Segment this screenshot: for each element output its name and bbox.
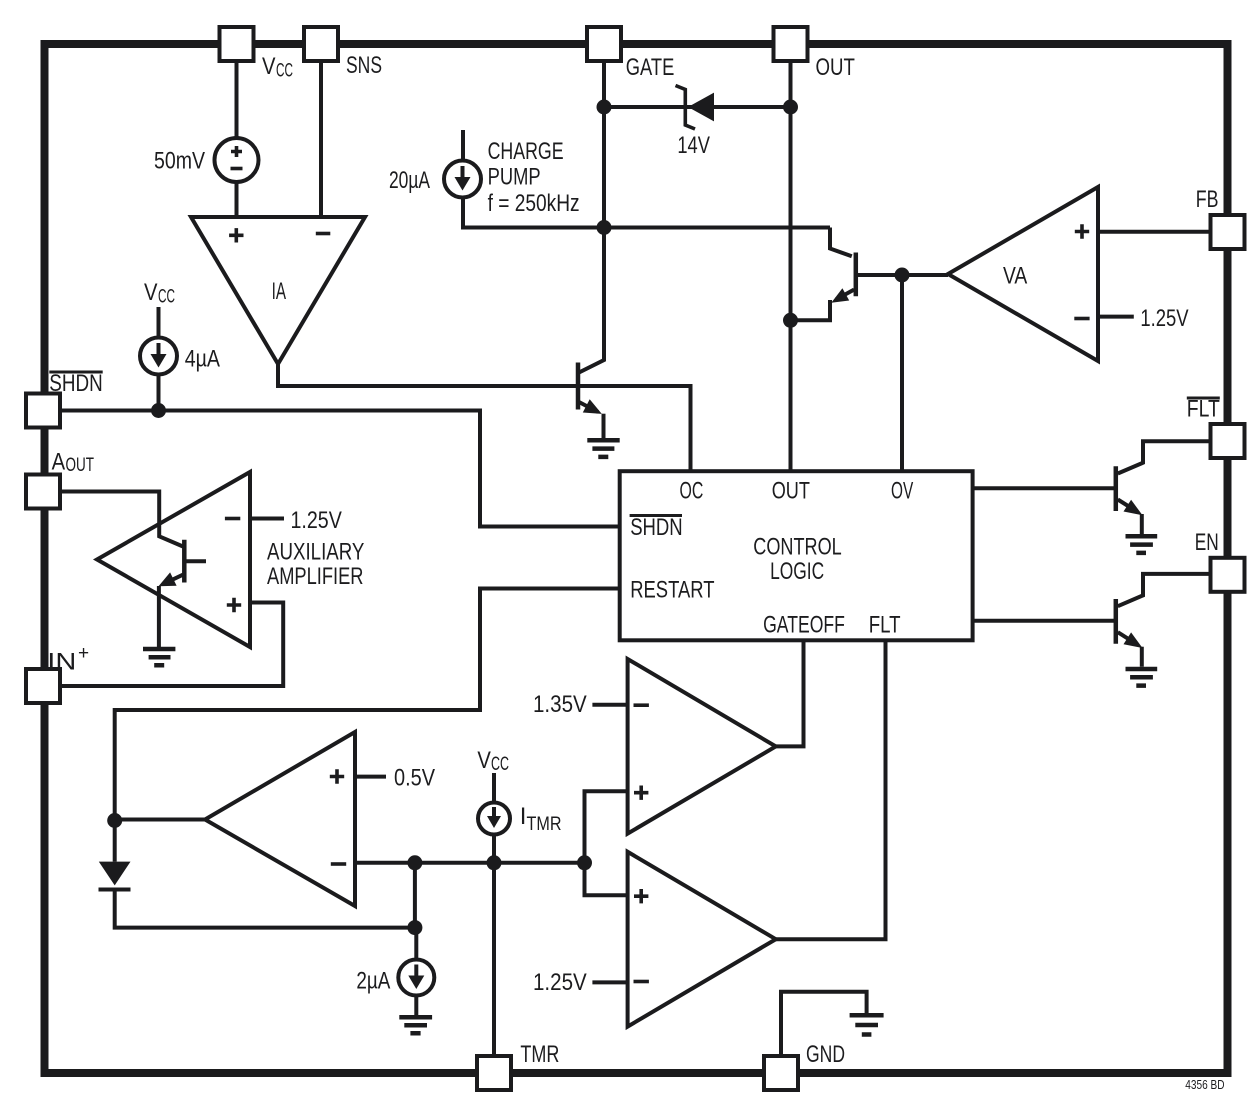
svg-text:1.25V: 1.25V xyxy=(291,507,342,534)
svg-text:V: V xyxy=(144,279,158,306)
svg-text:20µA: 20µA xyxy=(389,167,430,194)
svg-text:AMPLIFIER: AMPLIFIER xyxy=(267,563,364,590)
svg-text:OUT: OUT xyxy=(816,54,856,81)
svg-text:SHDN: SHDN xyxy=(630,514,683,541)
svg-text:f = 250kHz: f = 250kHz xyxy=(488,190,580,217)
svg-text:1.25V: 1.25V xyxy=(533,969,587,996)
svg-text:CC: CC xyxy=(491,754,509,775)
svg-text:A: A xyxy=(52,449,66,476)
svg-text:50mV: 50mV xyxy=(154,148,205,175)
svg-text:V: V xyxy=(262,53,276,80)
svg-text:IN: IN xyxy=(47,649,76,676)
svg-text:CC: CC xyxy=(276,61,293,82)
svg-text:I: I xyxy=(520,803,527,830)
svg-text:PUMP: PUMP xyxy=(488,164,541,191)
svg-text:14V: 14V xyxy=(677,132,710,159)
svg-text:GATEOFF: GATEOFF xyxy=(763,611,845,638)
svg-text:EN: EN xyxy=(1195,529,1219,556)
svg-text:1.25V: 1.25V xyxy=(1140,305,1188,332)
svg-text:1.35V: 1.35V xyxy=(533,691,587,718)
svg-text:IA: IA xyxy=(272,278,286,305)
svg-text:SNS: SNS xyxy=(346,52,382,79)
svg-text:TMR: TMR xyxy=(527,814,562,835)
svg-text:OV: OV xyxy=(891,478,913,505)
svg-text:AUXILIARY: AUXILIARY xyxy=(267,538,364,565)
svg-text:RESTART: RESTART xyxy=(630,576,715,603)
svg-text:CC: CC xyxy=(158,287,175,308)
svg-text:FLT: FLT xyxy=(869,611,901,638)
svg-text:0.5V: 0.5V xyxy=(394,765,435,792)
svg-text:OC: OC xyxy=(680,478,704,505)
svg-text:GND: GND xyxy=(806,1041,845,1068)
svg-text:4356 BD: 4356 BD xyxy=(1185,1077,1224,1092)
svg-text:FB: FB xyxy=(1196,186,1219,213)
svg-text:2µA: 2µA xyxy=(356,968,390,995)
svg-text:LOGIC: LOGIC xyxy=(770,558,824,585)
svg-text:VA: VA xyxy=(1003,263,1027,290)
svg-text:OUT: OUT xyxy=(66,455,95,476)
svg-text:CHARGE: CHARGE xyxy=(488,138,564,165)
svg-text:TMR: TMR xyxy=(520,1041,559,1068)
svg-text:GATE: GATE xyxy=(626,54,675,81)
svg-text:CONTROL: CONTROL xyxy=(753,534,841,561)
svg-text:SHDN: SHDN xyxy=(49,370,102,397)
svg-text:V: V xyxy=(477,747,491,774)
svg-text:4µA: 4µA xyxy=(185,346,220,373)
svg-text:OUT: OUT xyxy=(772,478,810,505)
svg-text:+: + xyxy=(78,643,89,664)
svg-text:FLT: FLT xyxy=(1187,396,1220,423)
